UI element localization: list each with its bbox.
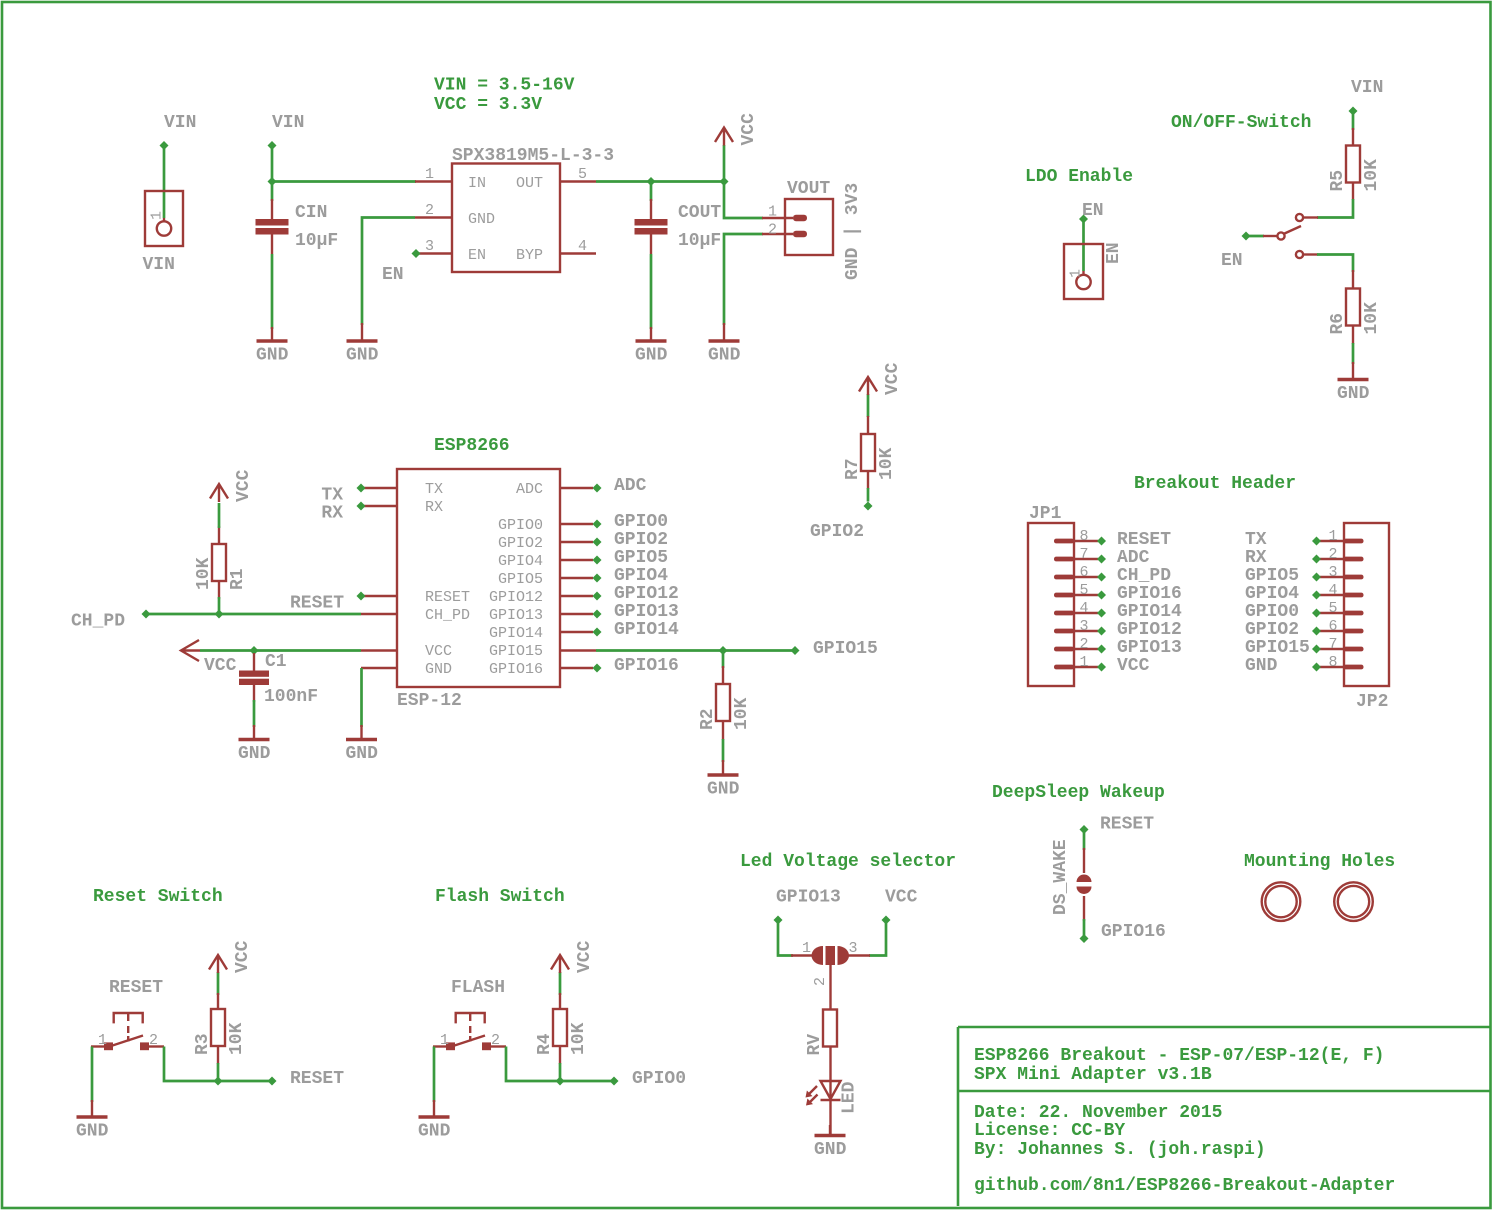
svg-text:10K: 10K xyxy=(194,557,214,590)
resistor R6 10K xyxy=(1328,289,1382,335)
ground U1 xyxy=(346,323,379,366)
pin 2 of JP2 xyxy=(1320,546,1364,563)
svg-text:RESET: RESET xyxy=(1100,815,1154,835)
svg-text:EN: EN xyxy=(1104,242,1124,264)
svg-text:TX: TX xyxy=(1245,530,1267,550)
switch S1 top contact xyxy=(1296,214,1318,221)
wire U1 GND pin to ground xyxy=(362,218,415,326)
pin 7 of JP1 xyxy=(1054,546,1098,563)
capacitor CIN xyxy=(256,203,339,251)
connector JP2 body xyxy=(1344,523,1389,712)
svg-text:TX: TX xyxy=(321,486,343,506)
mounting hole H2 xyxy=(1334,882,1373,921)
svg-text:GPIO5: GPIO5 xyxy=(498,571,543,588)
node JP1 pin 8 end xyxy=(1097,537,1106,546)
svg-text:100nF: 100nF xyxy=(264,687,318,707)
node JP2 pin 2 end xyxy=(1312,555,1321,564)
node JP2 pin 5 end xyxy=(1312,609,1321,618)
node GPIO13 end xyxy=(774,916,783,925)
resistor R6 pin stubs xyxy=(1352,270,1354,344)
node GPIO2 end xyxy=(593,538,602,547)
svg-text:LED: LED xyxy=(840,1081,860,1114)
svg-text:ADC: ADC xyxy=(516,481,543,498)
svg-text:2: 2 xyxy=(812,977,829,986)
wire R7 to GPIO2 xyxy=(867,488,870,502)
junction CH_PD/R1 xyxy=(215,610,224,619)
node VIN end (switch) xyxy=(1349,107,1358,116)
svg-text:TX: TX xyxy=(425,481,443,498)
pin GND of U2 xyxy=(361,667,397,669)
svg-text:R4: R4 xyxy=(535,1033,555,1055)
title block frame xyxy=(958,1027,1490,1206)
pin RX of U2 xyxy=(361,505,397,507)
solder jumper SJ2 DS_WAKE xyxy=(1051,839,1092,921)
svg-text:6: 6 xyxy=(1328,618,1337,635)
node JP1 pin 7 end xyxy=(1097,555,1106,564)
capacitor C1 xyxy=(239,652,318,707)
node JP2 pin 6 end xyxy=(1312,627,1321,636)
svg-text:Reset Switch: Reset Switch xyxy=(93,887,223,907)
node ADC end xyxy=(593,484,602,493)
svg-text:GPIO2: GPIO2 xyxy=(810,522,864,542)
pin 1 of JP2 xyxy=(1320,528,1364,545)
wire RESET to SJ2 xyxy=(1083,830,1086,851)
node RX end xyxy=(357,502,366,511)
wire R6 to GND xyxy=(1352,343,1355,364)
svg-text:CH_PD: CH_PD xyxy=(71,612,125,632)
push button RESET pin 2 xyxy=(140,1032,164,1050)
svg-text:GPIO16: GPIO16 xyxy=(1101,922,1166,942)
svg-text:RV: RV xyxy=(805,1034,825,1056)
svg-text:GPIO0: GPIO0 xyxy=(632,1069,686,1089)
svg-text:VCC: VCC xyxy=(233,940,253,973)
svg-text:License: CC-BY: License: CC-BY xyxy=(974,1121,1125,1141)
VCC supply symbol (R3) xyxy=(209,940,253,973)
svg-text:GPIO2: GPIO2 xyxy=(614,530,668,550)
svg-text:RESET: RESET xyxy=(425,589,470,606)
wire GPIO15 net xyxy=(596,649,795,652)
pin GPIO15 of U2 xyxy=(561,649,596,651)
ground VOUT xyxy=(708,323,741,366)
junction R3/RESET xyxy=(214,1077,223,1086)
wire EN to switch pole xyxy=(1246,235,1264,238)
node GPIO15 end xyxy=(791,646,800,655)
node JP2 pin 7 end xyxy=(1312,645,1321,654)
svg-text:VIN: VIN xyxy=(164,113,196,133)
svg-text:GPIO13: GPIO13 xyxy=(776,888,841,908)
pin 6 of JP2 xyxy=(1320,618,1364,635)
svg-text:GND: GND xyxy=(814,1140,847,1160)
svg-text:4: 4 xyxy=(578,238,587,255)
pin GPIO4 of U2 xyxy=(561,577,593,579)
node GPIO13 end xyxy=(593,610,602,619)
pin 8 of JP1 xyxy=(1054,528,1098,545)
svg-text:VCC: VCC xyxy=(885,888,918,908)
node GPIO14 end xyxy=(593,628,602,637)
node RESET end xyxy=(268,1077,277,1086)
node GPIO2 end xyxy=(864,502,873,511)
ground FLASH switch xyxy=(418,1100,451,1142)
svg-text:github.com/8n1/ESP8266-Breakou: github.com/8n1/ESP8266-Breakout-Adapter xyxy=(974,1176,1395,1196)
svg-text:10K: 10K xyxy=(1362,302,1382,335)
svg-text:RX: RX xyxy=(425,499,443,516)
wire VIN to SPX pin 1 xyxy=(272,180,416,183)
node JP2 pin 1 end xyxy=(1312,537,1321,546)
svg-text:GND: GND xyxy=(418,1122,451,1142)
connector X2 VIN xyxy=(143,191,184,275)
svg-text:10K: 10K xyxy=(732,697,752,730)
svg-text:VCC: VCC xyxy=(739,113,759,146)
svg-text:VOUT: VOUT xyxy=(787,179,830,199)
node GPIO5 end xyxy=(593,556,602,565)
pin 4 of JP2 xyxy=(1320,582,1364,599)
wire R3 to junction xyxy=(217,1063,220,1081)
resistor R4 10K xyxy=(535,1009,589,1055)
resistor R5 10K xyxy=(1328,146,1382,192)
VCC supply symbol (R4) xyxy=(551,940,595,973)
LED LED1 xyxy=(806,1081,860,1114)
svg-text:1: 1 xyxy=(98,1032,107,1049)
svg-text:8: 8 xyxy=(1328,654,1337,671)
svg-text:Breakout Header: Breakout Header xyxy=(1134,474,1296,494)
node JP1 pin 4 end xyxy=(1097,609,1106,618)
svg-text:10K: 10K xyxy=(877,447,897,480)
node GPIO0 end xyxy=(610,1077,619,1086)
node VCC end xyxy=(882,916,891,925)
pin GPIO12 of U2 xyxy=(561,595,593,597)
pin 2 of JP1 xyxy=(1054,636,1098,653)
push button S RESET actuator xyxy=(114,1013,143,1042)
svg-text:4: 4 xyxy=(1079,600,1088,617)
svg-text:C1: C1 xyxy=(265,652,287,672)
connector JP1 body xyxy=(1028,504,1074,686)
pin GPIO13 of U2 xyxy=(561,613,593,615)
resistor R3 10K xyxy=(193,1009,247,1055)
svg-text:GND | 3V3: GND | 3V3 xyxy=(843,183,863,280)
resistor R1 pin stubs xyxy=(218,526,220,599)
svg-text:3: 3 xyxy=(1328,564,1337,581)
svg-text:GPIO13: GPIO13 xyxy=(614,602,679,622)
pin 5 OUT of U1 xyxy=(560,166,596,183)
svg-text:COUT: COUT xyxy=(678,203,721,223)
wire VCC to R3 xyxy=(217,972,220,995)
resistor R4 pin stubs xyxy=(559,993,561,1064)
node GPIO16 end (DS_WAKE) xyxy=(1080,934,1089,943)
wire R5 to switch top contact xyxy=(1317,199,1353,218)
svg-text:BYP: BYP xyxy=(516,247,543,264)
node JP1 pin 1 end xyxy=(1097,663,1106,672)
svg-text:5: 5 xyxy=(578,166,587,183)
node JP2 pin 3 end xyxy=(1312,573,1321,582)
node GPIO16 end xyxy=(593,664,602,673)
pin 5 of JP1 xyxy=(1054,582,1098,599)
node GPIO0 end xyxy=(593,520,602,529)
svg-text:ADC: ADC xyxy=(1117,548,1150,568)
wire VCC to R4 xyxy=(559,972,562,995)
svg-text:GPIO15: GPIO15 xyxy=(489,643,543,660)
node EN at U1 pin 3 xyxy=(412,249,421,258)
svg-text:VIN: VIN xyxy=(1351,78,1383,98)
switch S1 pole and lever xyxy=(1263,226,1301,240)
U2 internal pin names left xyxy=(425,481,470,678)
svg-text:VCC = 3.3V: VCC = 3.3V xyxy=(434,95,542,115)
svg-text:OUT: OUT xyxy=(516,175,543,192)
svg-text:R1: R1 xyxy=(228,568,248,590)
mounting hole H1 xyxy=(1262,882,1301,921)
svg-text:ON/OFF-Switch: ON/OFF-Switch xyxy=(1171,113,1311,133)
svg-text:VCC: VCC xyxy=(1117,656,1150,676)
pin CH_PD of U2 xyxy=(361,613,397,615)
svg-text:RESET: RESET xyxy=(290,594,344,614)
svg-text:10K: 10K xyxy=(227,1022,247,1055)
resistor R2 pin stubs xyxy=(722,666,724,740)
svg-text:R3: R3 xyxy=(193,1033,213,1055)
push button RESET pin 1 xyxy=(91,1032,113,1050)
ground U2 xyxy=(346,725,379,764)
wire FLASH pin1 to GND xyxy=(433,1047,436,1103)
wire RESET pin1 to GND xyxy=(91,1047,94,1103)
svg-text:10µF: 10µF xyxy=(295,231,338,251)
svg-text:GPIO16: GPIO16 xyxy=(489,661,543,678)
wire VIN to connector X2 xyxy=(163,146,166,219)
svg-text:10K: 10K xyxy=(569,1022,589,1055)
svg-text:1: 1 xyxy=(149,211,166,220)
node CH_PD end xyxy=(142,610,151,619)
node EN end xyxy=(1079,215,1088,224)
svg-text:GPIO2: GPIO2 xyxy=(498,535,543,552)
node GPIO4 end xyxy=(593,574,602,583)
svg-text:GPIO0: GPIO0 xyxy=(498,517,543,534)
svg-text:GND: GND xyxy=(708,346,741,366)
svg-text:GND: GND xyxy=(256,346,289,366)
svg-text:GPIO5: GPIO5 xyxy=(1245,566,1299,586)
wire VCC up xyxy=(723,145,726,182)
svg-text:GPIO14: GPIO14 xyxy=(614,620,679,640)
svg-text:10K: 10K xyxy=(1362,159,1382,192)
svg-text:GPIO4: GPIO4 xyxy=(498,553,543,570)
pin 4 BYP of U1 (n.c.) xyxy=(560,238,596,255)
node JP1 pin 3 end xyxy=(1097,627,1106,636)
svg-text:GPIO13: GPIO13 xyxy=(1117,638,1182,658)
svg-text:GPIO4: GPIO4 xyxy=(1245,584,1299,604)
svg-text:GPIO5: GPIO5 xyxy=(614,548,668,568)
resistor R7 pin stubs xyxy=(867,416,869,489)
svg-text:GPIO14: GPIO14 xyxy=(1117,602,1182,622)
pin GPIO5 of U2 xyxy=(561,559,593,561)
node TX end xyxy=(357,484,366,493)
svg-text:GPIO14: GPIO14 xyxy=(489,625,543,642)
svg-text:Mounting Holes: Mounting Holes xyxy=(1244,852,1395,872)
ground R2 xyxy=(707,760,740,800)
connector VOUT xyxy=(762,179,863,280)
pin 1 of JP1 xyxy=(1054,654,1098,671)
wire C1 to GND xyxy=(253,700,256,727)
svg-text:GPIO16: GPIO16 xyxy=(614,656,679,676)
wire RV to LED to GND xyxy=(829,1046,831,1136)
resistor R1 10K xyxy=(194,544,248,590)
pin 6 of JP1 xyxy=(1054,564,1098,581)
node JP1 pin 5 end xyxy=(1097,591,1106,600)
resistor R3 pin stubs xyxy=(217,993,219,1064)
svg-text:GND: GND xyxy=(707,780,740,800)
pin GPIO0 of U2 xyxy=(561,523,593,525)
solder jumper SJ1 xyxy=(791,940,870,986)
wire U2 GND down xyxy=(360,668,363,727)
wire GPIO13 to SJ1 pin 1 xyxy=(778,920,793,956)
capacitor COUT pin stubs xyxy=(650,199,652,254)
wire COUT to GND xyxy=(650,254,653,329)
svg-text:GND: GND xyxy=(425,661,452,678)
pin 7 of JP2 xyxy=(1320,636,1364,653)
svg-text:VIN: VIN xyxy=(272,113,304,133)
svg-text:2: 2 xyxy=(1328,546,1337,563)
resistor R5 pin stubs xyxy=(1352,128,1354,200)
svg-text:SPX3819M5-L-3-3: SPX3819M5-L-3-3 xyxy=(452,146,614,166)
svg-text:EN: EN xyxy=(468,247,486,264)
svg-text:1: 1 xyxy=(425,166,434,183)
svg-text:7: 7 xyxy=(1079,546,1088,563)
svg-text:GND: GND xyxy=(1337,384,1370,404)
wire VIN junction to CIN xyxy=(271,182,274,202)
svg-text:GND: GND xyxy=(468,211,495,228)
svg-text:ESP-12: ESP-12 xyxy=(397,691,462,711)
svg-text:10µF: 10µF xyxy=(678,231,721,251)
pin RESET of U2 xyxy=(361,595,397,597)
svg-text:VCC: VCC xyxy=(204,656,237,676)
svg-text:LDO Enable: LDO Enable xyxy=(1025,167,1133,187)
svg-text:GND: GND xyxy=(238,744,271,764)
resistor R2 10K xyxy=(698,684,752,730)
svg-text:JP2: JP2 xyxy=(1356,692,1388,712)
capacitor C1 pin stubs xyxy=(253,653,255,702)
wire RESET pin2 to net xyxy=(164,1047,272,1082)
ground C1 xyxy=(238,725,271,764)
node RESET end (DS_WAKE) xyxy=(1080,825,1089,834)
ground RESET switch xyxy=(76,1100,109,1142)
svg-text:ADC: ADC xyxy=(614,476,647,496)
VCC supply symbol (R7) xyxy=(859,362,903,395)
wire VCC to SJ1 pin 3 xyxy=(869,920,886,956)
switch S1 bottom contact xyxy=(1296,251,1318,258)
regulator U1 SPX3819M5-L-3-3 xyxy=(452,146,614,272)
pin 4 of JP1 xyxy=(1054,600,1098,617)
node RESET end xyxy=(357,592,366,601)
svg-text:3: 3 xyxy=(1079,618,1088,635)
svg-text:2: 2 xyxy=(768,222,777,239)
svg-text:VCC: VCC xyxy=(575,940,595,973)
svg-text:R6: R6 xyxy=(1328,313,1348,335)
node JP2 pin 4 end xyxy=(1312,591,1321,600)
ground R6 xyxy=(1337,362,1370,404)
svg-text:2: 2 xyxy=(149,1032,158,1049)
svg-text:Flash Switch: Flash Switch xyxy=(435,887,565,907)
svg-text:GPIO0: GPIO0 xyxy=(1245,602,1299,622)
wire CIN to GND xyxy=(271,254,274,329)
U2 internal pin names right xyxy=(489,481,543,678)
junction VIN/CIN xyxy=(268,177,277,186)
svg-text:EN: EN xyxy=(382,265,404,285)
svg-text:RESET: RESET xyxy=(109,978,163,998)
svg-text:2: 2 xyxy=(425,202,434,219)
node GPIO12 end xyxy=(593,592,602,601)
pin 1 IN of U1 xyxy=(415,166,452,183)
capacitor CIN pin stubs xyxy=(271,199,273,254)
wire R2 to GND xyxy=(722,739,725,762)
VCC supply symbol (R1) xyxy=(210,469,254,502)
svg-text:1: 1 xyxy=(440,1032,449,1049)
svg-text:7: 7 xyxy=(1328,636,1337,653)
svg-text:EN: EN xyxy=(1221,251,1243,271)
junction R4/GPIO0 xyxy=(556,1077,565,1086)
svg-text:Led Voltage selector: Led Voltage selector xyxy=(740,852,956,872)
junction OUT/COUT xyxy=(647,177,656,186)
svg-text:VCC: VCC xyxy=(883,362,903,395)
svg-text:GND: GND xyxy=(635,346,668,366)
svg-text:IN: IN xyxy=(468,175,486,192)
wire OUT junction to COUT xyxy=(650,182,653,202)
pin GPIO16 of U2 xyxy=(561,667,593,669)
wire SJ1 pin 2 to RV xyxy=(829,964,831,1010)
pin ADC of U2 xyxy=(561,487,593,489)
push button FLASH lever xyxy=(453,1036,485,1047)
pin 3 EN of U1 xyxy=(419,238,452,255)
module U2 ESP-12 body xyxy=(397,469,560,711)
svg-text:1: 1 xyxy=(768,204,777,221)
svg-text:Date: 22. November 2015: Date: 22. November 2015 xyxy=(974,1103,1222,1123)
svg-text:3: 3 xyxy=(425,238,434,255)
capacitor COUT xyxy=(635,203,722,251)
svg-text:3: 3 xyxy=(849,940,858,957)
svg-text:GND: GND xyxy=(76,1122,109,1142)
svg-text:DeepSleep Wakeup: DeepSleep Wakeup xyxy=(992,783,1165,803)
pin VCC of U2 xyxy=(361,649,397,651)
pin GPIO14 of U2 xyxy=(561,631,593,633)
node VIN rail end xyxy=(268,141,277,150)
svg-text:GPIO12: GPIO12 xyxy=(1117,620,1182,640)
wire VCC to R7 xyxy=(867,394,870,417)
svg-text:SPX Mini Adapter v3.1B: SPX Mini Adapter v3.1B xyxy=(974,1065,1212,1085)
pin 8 of JP2 xyxy=(1320,654,1364,671)
svg-text:VIN: VIN xyxy=(143,255,175,275)
wire R1 to CH_PD xyxy=(218,597,221,614)
wire OUT rail xyxy=(596,180,724,183)
svg-text:RX: RX xyxy=(321,504,343,524)
pin TX of U2 xyxy=(361,487,397,489)
svg-text:GPIO4: GPIO4 xyxy=(614,566,668,586)
svg-text:VIN = 3.5-16V: VIN = 3.5-16V xyxy=(434,76,575,96)
VCC supply symbol (regulator output) xyxy=(715,113,759,146)
ground COUT xyxy=(635,327,668,366)
wire VCC to R1 xyxy=(218,503,221,528)
node JP1 pin 6 end xyxy=(1097,573,1106,582)
junction GPIO15/R2 xyxy=(719,646,728,655)
ground LED xyxy=(814,1125,847,1160)
node JP2 pin 8 end xyxy=(1312,663,1321,672)
svg-text:ESP8266: ESP8266 xyxy=(434,436,510,456)
svg-text:8: 8 xyxy=(1079,528,1088,545)
svg-text:R5: R5 xyxy=(1328,170,1348,192)
svg-text:RESET: RESET xyxy=(1117,530,1171,550)
pin 5 of JP2 xyxy=(1320,600,1364,617)
push button FLASH pin 2 xyxy=(482,1032,506,1050)
push button S FLASH actuator xyxy=(456,1013,485,1042)
svg-text:GPIO12: GPIO12 xyxy=(614,584,679,604)
node VIN pin end xyxy=(160,141,169,150)
wire VIN to R5 xyxy=(1352,111,1355,130)
wire VCC junction to VOUT pin 1 xyxy=(724,182,763,219)
svg-text:VCC: VCC xyxy=(234,469,254,502)
svg-text:FLASH: FLASH xyxy=(451,978,505,998)
